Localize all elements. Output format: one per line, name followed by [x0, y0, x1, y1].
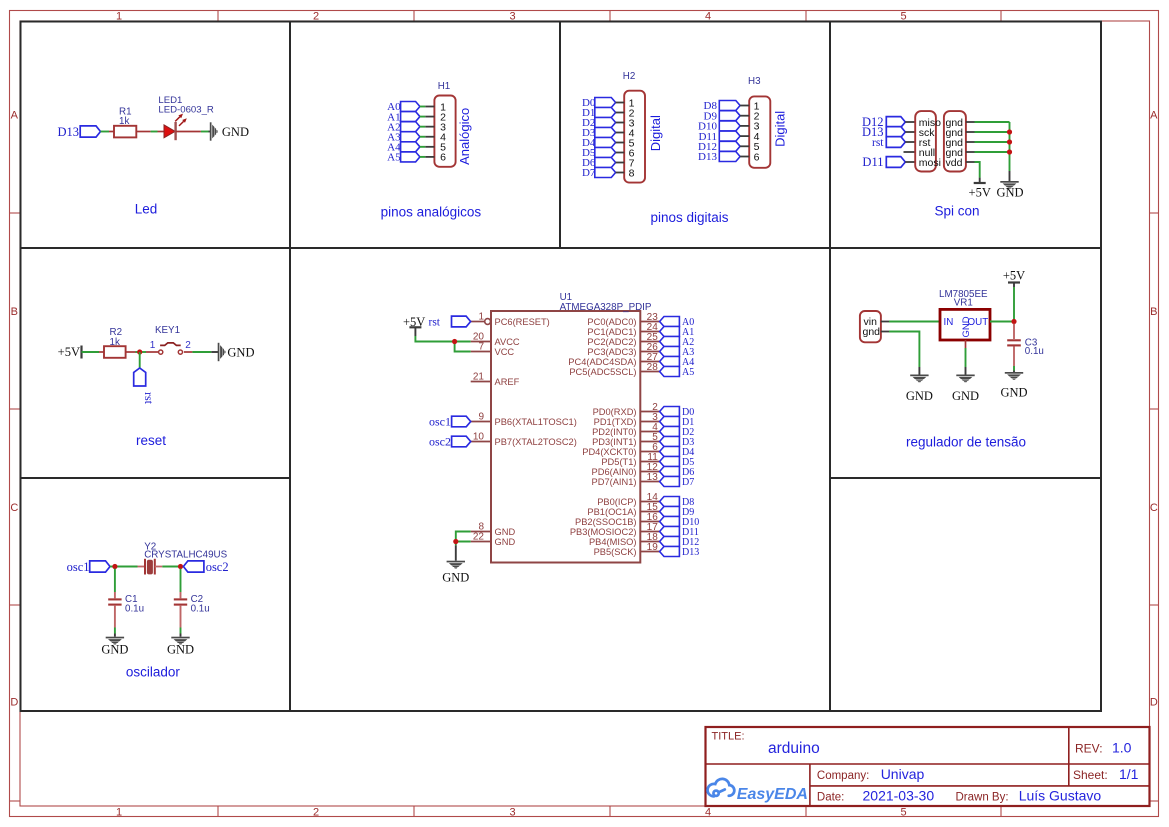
svg-text:PD5(T1): PD5(T1)	[601, 457, 636, 467]
svg-text:osc1: osc1	[429, 415, 451, 429]
svg-text:VCC: VCC	[495, 347, 515, 357]
svg-text:Led: Led	[135, 202, 158, 217]
wire H2 pin 3	[616, 122, 625, 124]
net flag D11	[698, 131, 740, 143]
svg-text:arduino: arduino	[768, 740, 820, 757]
U1 pin 9 PB6(XTAL1TOSC1)	[471, 412, 577, 427]
svg-text:IN: IN	[944, 317, 954, 328]
header P3 vin/gnd	[860, 311, 881, 342]
wire H2 pin 4	[616, 132, 625, 134]
wire H1 pin 3	[420, 126, 435, 128]
net flag A2	[387, 121, 420, 133]
wire gnd to GND	[881, 332, 920, 375]
svg-text:22: 22	[473, 532, 485, 543]
wire osc1 node to C1	[114, 569, 116, 599]
wire gnd bus to GND	[966, 122, 1010, 182]
svg-text:PB2(SSOC1B): PB2(SSOC1B)	[575, 517, 636, 527]
capacitor C2	[174, 594, 210, 614]
U1 pin 17 PB3(MOSIOC2)	[570, 522, 660, 537]
U1 pin 13 PD7(AIN1)	[592, 472, 660, 487]
svg-text:PB3(MOSIOC2): PB3(MOSIOC2)	[570, 527, 637, 537]
svg-text:PC1(ADC1): PC1(ADC1)	[587, 327, 636, 337]
wire vdd to +5V	[966, 162, 980, 183]
wire R1 to LED1	[136, 131, 164, 133]
net flag D13 (U1)	[660, 547, 700, 559]
wire H3 pin 3	[740, 125, 749, 127]
power +5V (reset)	[58, 345, 82, 359]
svg-text:PC3(ADC3): PC3(ADC3)	[587, 347, 636, 357]
ground GND (SPI)	[996, 181, 1023, 200]
U1 pin 26 PC3(ADC3)	[587, 342, 659, 357]
wire VR1 GND pin	[965, 340, 967, 375]
U1 pin 11 PD5(T1)	[601, 452, 659, 467]
svg-text:3: 3	[509, 806, 515, 818]
net flag D2 (U1)	[660, 427, 695, 439]
net flag A3	[387, 131, 420, 143]
net flag osc2	[183, 560, 228, 574]
svg-text:GND: GND	[495, 537, 516, 547]
svg-text:PD2(INT0): PD2(INT0)	[592, 427, 636, 437]
svg-text:rst: rst	[429, 316, 441, 328]
svg-text:B: B	[11, 306, 18, 318]
wire D12 to P1 pin miso	[905, 121, 915, 123]
net flag A5 (U1)	[660, 367, 695, 379]
svg-text:A5: A5	[682, 367, 694, 378]
svg-text:6: 6	[754, 151, 760, 163]
svg-text:Luís Gustavo: Luís Gustavo	[1019, 788, 1102, 804]
svg-text:2: 2	[185, 340, 191, 351]
svg-text:REV:: REV:	[1075, 742, 1103, 756]
wire LED1 to GND	[178, 131, 211, 133]
U1 pin 12 PD6(AIN0)	[592, 462, 660, 477]
U1 pin 4 PD2(INT0)	[592, 422, 660, 437]
net flag osc1 (U1)	[429, 415, 471, 429]
U1 pin 28 PC5(ADC5SCL)	[569, 362, 659, 377]
net flag D10 (U1)	[660, 517, 700, 529]
net flag D1 (U1)	[660, 417, 695, 429]
regulator VR1 LM7805EE	[939, 289, 990, 340]
wire osc1 to Y2	[110, 566, 145, 568]
junction node rst	[137, 349, 142, 354]
net flag D7 (U1)	[660, 477, 695, 489]
net flag A4	[387, 142, 420, 154]
svg-text:AVCC: AVCC	[495, 337, 520, 347]
net flag A4 (U1)	[660, 357, 695, 369]
net flag rst (SPI)	[872, 137, 905, 149]
U1 pin 6 PD4(XCKT0)	[582, 442, 659, 457]
wire C1 to GND	[114, 606, 116, 637]
wire H2 pin 7	[616, 162, 625, 164]
wire D11 to P1 pin mosi	[905, 161, 915, 163]
net flag A0	[387, 101, 420, 113]
wire D13 to R1	[101, 131, 115, 133]
wire KEY1 to GND	[184, 351, 218, 353]
net flag D2	[582, 117, 616, 129]
svg-text:PD7(AIN1): PD7(AIN1)	[592, 477, 637, 487]
header H1	[434, 81, 455, 167]
U1 pin 25 PC2(ADC2)	[587, 332, 659, 347]
ground GND (C2)	[167, 637, 194, 657]
svg-text:PD4(XCKT0): PD4(XCKT0)	[582, 447, 636, 457]
svg-text:D13: D13	[698, 151, 717, 163]
net flag osc1	[67, 560, 110, 574]
wire H1 pin 2	[420, 116, 435, 118]
net flag D5 (U1)	[660, 457, 695, 469]
ground GND (vin header)	[906, 375, 933, 403]
svg-text:GND: GND	[961, 316, 972, 337]
svg-text:AREF: AREF	[495, 377, 520, 387]
svg-text:GND: GND	[442, 571, 469, 585]
svg-text:B: B	[1150, 306, 1157, 318]
ground GND (reset)	[218, 343, 255, 361]
svg-text:2: 2	[313, 806, 319, 818]
wire +5V to AVCC/VCC	[415, 336, 470, 352]
net flag D1	[582, 107, 616, 119]
wire H2 pin 5	[616, 142, 625, 144]
net flag D4 (U1)	[660, 447, 695, 459]
svg-text:GND: GND	[906, 389, 933, 403]
svg-text:PB1(OC1A): PB1(OC1A)	[587, 507, 636, 517]
wire VR1 OUT to +5V and C3	[990, 283, 1014, 322]
svg-text:osc2: osc2	[429, 435, 451, 449]
capacitor C1	[108, 594, 144, 614]
svg-text:Digital: Digital	[648, 115, 663, 151]
U1 pin 2 PD0(RXD)	[593, 402, 660, 417]
U1 pin 23 PC0(ADC0)	[587, 312, 659, 327]
net flag D0 (U1)	[660, 407, 695, 419]
svg-text:CRYSTALHC49US: CRYSTALHC49US	[144, 549, 227, 560]
wire H2 pin 2	[616, 112, 625, 114]
svg-text:A5: A5	[387, 152, 401, 164]
wire H3 pin 1	[740, 105, 749, 107]
U1 pin 10 PB7(XTAL2TOSC2)	[471, 432, 577, 447]
svg-text:vdd: vdd	[946, 157, 963, 169]
ground GND (C1)	[101, 637, 128, 657]
svg-text:C: C	[1150, 502, 1158, 514]
net flag D5	[582, 147, 616, 159]
net flag D4	[582, 137, 616, 149]
wire H3 pin 6	[740, 156, 749, 158]
net flag D8	[704, 100, 741, 112]
wire vin to VR1 IN	[881, 321, 940, 323]
wire C2 to GND	[180, 606, 182, 637]
U1 pin 7 VCC	[471, 342, 515, 357]
wire D13 to P1 pin sck	[905, 131, 915, 133]
wire H1 pin 1	[420, 106, 435, 108]
net flag A1 (U1)	[660, 327, 695, 339]
svg-text:13: 13	[647, 472, 659, 483]
svg-text:rst: rst	[142, 392, 156, 405]
header P2 (gnd/vdd)	[944, 111, 966, 171]
svg-text:+5V: +5V	[1003, 268, 1025, 282]
svg-text:10: 10	[473, 432, 485, 443]
wire rst to P1 pin rst	[905, 141, 915, 143]
U1 pin 22 GND	[471, 532, 516, 547]
svg-text:H3: H3	[748, 76, 761, 87]
svg-text:EasyEDA: EasyEDA	[737, 786, 808, 803]
resistor R2	[104, 327, 126, 358]
U1 pin 3 PD1(TXD)	[594, 412, 660, 427]
svg-text:5: 5	[900, 806, 906, 818]
svg-text:0.1u: 0.1u	[1025, 346, 1044, 357]
U1 pin 1 PC6(RESET)	[471, 312, 550, 327]
wire down to rst flag	[139, 352, 141, 368]
svg-text:1: 1	[478, 312, 484, 323]
U1 pin 8 GND	[471, 522, 516, 537]
ground GND (VR1)	[952, 375, 979, 403]
net flag A1	[387, 111, 420, 123]
svg-text:D11: D11	[862, 155, 883, 169]
header H3	[748, 76, 770, 168]
wire stub null pin	[904, 151, 916, 153]
net flag A2 (U1)	[660, 337, 695, 349]
svg-text:D13: D13	[57, 125, 79, 139]
wire H3 pin 2	[740, 115, 749, 117]
svg-text:PD1(TXD): PD1(TXD)	[594, 417, 637, 427]
switch KEY1	[150, 325, 192, 354]
svg-text:TITLE:: TITLE:	[712, 731, 745, 743]
svg-text:PB7(XTAL2TOSC2): PB7(XTAL2TOSC2)	[495, 437, 577, 447]
wire H2 pin 6	[616, 152, 625, 154]
svg-text:GND: GND	[996, 186, 1023, 200]
net flag D12	[698, 141, 740, 153]
net flag D3	[582, 127, 616, 139]
resistor R1	[114, 106, 136, 137]
net flag A5	[387, 152, 420, 164]
svg-text:2021-03-30: 2021-03-30	[863, 788, 935, 804]
svg-text:D7: D7	[682, 477, 694, 488]
net flag A3 (U1)	[660, 347, 695, 359]
title block	[706, 727, 1150, 806]
svg-text:reset: reset	[136, 433, 166, 448]
net flag D6	[582, 157, 616, 169]
junction node GND	[453, 539, 458, 544]
header H2	[623, 71, 645, 182]
svg-text:GND: GND	[952, 389, 979, 403]
net flag D11 (U1)	[660, 527, 699, 539]
svg-text:1: 1	[150, 340, 156, 351]
U1 pin 20 AVCC	[471, 332, 520, 347]
U1 pin 21 AREF	[471, 372, 520, 387]
svg-text:Date:: Date:	[817, 792, 845, 804]
net flag D12 (U1)	[660, 537, 700, 549]
svg-text:A: A	[1150, 109, 1158, 121]
svg-text:1k: 1k	[119, 116, 129, 127]
power +5V (U1)	[403, 315, 425, 336]
svg-text:gnd: gnd	[863, 326, 881, 338]
wire GND pins	[456, 532, 471, 561]
net flag D0	[582, 97, 616, 109]
capacitor C3	[1007, 338, 1044, 357]
wire OUT to C3	[1013, 324, 1015, 339]
crystal Y2	[144, 541, 227, 574]
svg-text:oscilador: oscilador	[126, 665, 181, 680]
svg-text:Spi con: Spi con	[934, 204, 979, 219]
svg-text:0.1u: 0.1u	[191, 604, 210, 615]
svg-text:1/1: 1/1	[1119, 766, 1139, 782]
svg-text:1.0: 1.0	[1112, 740, 1132, 756]
svg-text:PC4(ADC4SDA): PC4(ADC4SDA)	[568, 357, 636, 367]
svg-text:PB0(ICP): PB0(ICP)	[597, 497, 636, 507]
svg-text:D7: D7	[582, 167, 596, 179]
svg-text:PD3(INT1): PD3(INT1)	[592, 437, 636, 447]
svg-text:Analógico: Analógico	[457, 108, 472, 165]
svg-text:PC6(RESET): PC6(RESET)	[495, 317, 550, 327]
wire C3 to GND	[1013, 347, 1015, 373]
svg-text:1k: 1k	[110, 337, 120, 348]
svg-text:GND: GND	[1000, 385, 1027, 399]
svg-text:7: 7	[478, 342, 484, 353]
wire +5V to R2	[82, 351, 105, 353]
U1 pin 16 PB2(SSOC1B)	[575, 512, 660, 527]
op-amp U1 ATMEGA328P_PDIP body	[491, 292, 652, 563]
net flag rst (U1)	[429, 316, 471, 328]
header P1 (miso/sck/rst/null/mosi)	[915, 111, 941, 171]
svg-text:0.1u: 0.1u	[125, 604, 144, 615]
power +5V (regulator)	[1003, 268, 1025, 282]
wire H3 pin 5	[740, 145, 749, 147]
svg-text:osc2: osc2	[206, 560, 229, 574]
svg-text:H1: H1	[438, 81, 451, 92]
svg-text:+5V: +5V	[969, 185, 991, 199]
svg-text:ATMEGA328P_PDIP: ATMEGA328P_PDIP	[560, 302, 652, 313]
junction node osc2	[178, 564, 183, 569]
LED LED1	[158, 95, 214, 140]
svg-text:PB6(XTAL1TOSC1): PB6(XTAL1TOSC1)	[495, 417, 577, 427]
svg-text:LED-0603_R: LED-0603_R	[158, 105, 214, 116]
svg-text:+5V: +5V	[58, 345, 80, 359]
svg-text:19: 19	[647, 542, 659, 553]
wire H1 pin 4	[420, 136, 435, 138]
svg-text:mosi: mosi	[919, 157, 941, 169]
net flag osc2 (U1)	[429, 435, 471, 449]
svg-text:A: A	[11, 109, 19, 121]
U1 pin 15 PB1(OC1A)	[587, 502, 659, 517]
net flag D11 (SPI)	[862, 155, 905, 169]
wire H1 pin 6	[420, 156, 435, 158]
junction node AVCC	[452, 339, 457, 344]
net flag A0 (U1)	[660, 317, 695, 329]
junction node osc1	[112, 564, 117, 569]
svg-text:rst: rst	[872, 137, 884, 149]
net flag D3 (U1)	[660, 437, 695, 449]
svg-text:PB4(MISO): PB4(MISO)	[589, 537, 637, 547]
U1 pin 18 PB4(MISO)	[589, 532, 660, 547]
svg-text:PC2(ADC2): PC2(ADC2)	[587, 337, 636, 347]
svg-text:21: 21	[473, 372, 485, 383]
wire H2 pin 1	[616, 102, 625, 104]
wire H1 pin 5	[420, 146, 435, 148]
svg-text:GND: GND	[227, 345, 254, 359]
U1 pin 19 PB5(SCK)	[594, 542, 660, 557]
svg-text:PD0(RXD): PD0(RXD)	[593, 407, 637, 417]
junction dots gnd bus	[1007, 129, 1012, 134]
net flag D13 (SPI)	[862, 125, 905, 139]
svg-text:4: 4	[705, 806, 711, 818]
U1 pin 24 PC1(ADC1)	[587, 322, 659, 337]
wire Y2 to osc2	[155, 566, 184, 568]
svg-text:D: D	[1150, 696, 1158, 708]
svg-text:D13: D13	[682, 547, 699, 558]
svg-text:PC5(ADC5SCL): PC5(ADC5SCL)	[569, 367, 636, 377]
svg-text:Digital: Digital	[773, 111, 788, 147]
svg-text:Sheet:: Sheet:	[1073, 768, 1108, 782]
svg-text:PD6(AIN0): PD6(AIN0)	[592, 467, 637, 477]
svg-text:D: D	[10, 696, 18, 708]
wire osc2 node to C2	[180, 569, 182, 599]
svg-text:osc1: osc1	[67, 560, 90, 574]
net flag D10	[698, 121, 740, 133]
net flag D8 (U1)	[660, 497, 695, 509]
net flag D7	[582, 167, 616, 179]
svg-text:9: 9	[478, 412, 484, 423]
ground GND (U1)	[442, 561, 469, 585]
svg-text:pinos digitais: pinos digitais	[650, 210, 728, 225]
svg-text:PC0(ADC0): PC0(ADC0)	[587, 317, 636, 327]
net flag D13	[698, 151, 740, 163]
svg-text:Company:: Company:	[817, 770, 869, 782]
ground GND (C3)	[1000, 372, 1027, 399]
svg-text:GND: GND	[495, 527, 516, 537]
svg-text:C: C	[10, 502, 18, 514]
U1 pin 5 PD3(INT1)	[592, 432, 660, 447]
net flag rst (reset)	[134, 368, 156, 405]
svg-text:8: 8	[629, 167, 635, 179]
wire R2 to KEY1	[126, 351, 159, 353]
wire H3 pin 4	[740, 135, 749, 137]
net flag D12 (SPI)	[862, 115, 905, 129]
net flag D6 (U1)	[660, 467, 695, 479]
svg-text:VR1: VR1	[954, 297, 973, 308]
svg-text:H2: H2	[623, 71, 636, 82]
U1 pin 14 PB0(ICP)	[597, 492, 659, 507]
svg-text:Drawn By:: Drawn By:	[956, 792, 1009, 804]
svg-text:Univap: Univap	[881, 766, 925, 782]
svg-text:1: 1	[116, 806, 122, 818]
EasyEDA logo	[708, 779, 808, 803]
svg-text:6: 6	[440, 152, 446, 164]
power +5V (SPI)	[969, 183, 991, 199]
svg-text:pinos analógicos: pinos analógicos	[381, 205, 482, 220]
svg-text:GND: GND	[222, 125, 249, 139]
svg-text:regulador de tensão: regulador de tensão	[906, 435, 1026, 450]
net flag D9 (U1)	[660, 507, 695, 519]
ground GND (Led)	[210, 122, 249, 140]
svg-text:28: 28	[647, 362, 659, 373]
net flag D9	[704, 110, 741, 122]
U1 pin 27 PC4(ADC4SDA)	[568, 352, 659, 367]
svg-text:GND: GND	[101, 642, 128, 656]
svg-text:KEY1: KEY1	[155, 325, 180, 336]
svg-text:GND: GND	[167, 642, 194, 656]
net flag D13	[57, 125, 100, 139]
wire H2 pin 8	[616, 172, 625, 174]
junction node OUT	[1011, 319, 1016, 324]
svg-text:PB5(SCK): PB5(SCK)	[594, 547, 637, 557]
